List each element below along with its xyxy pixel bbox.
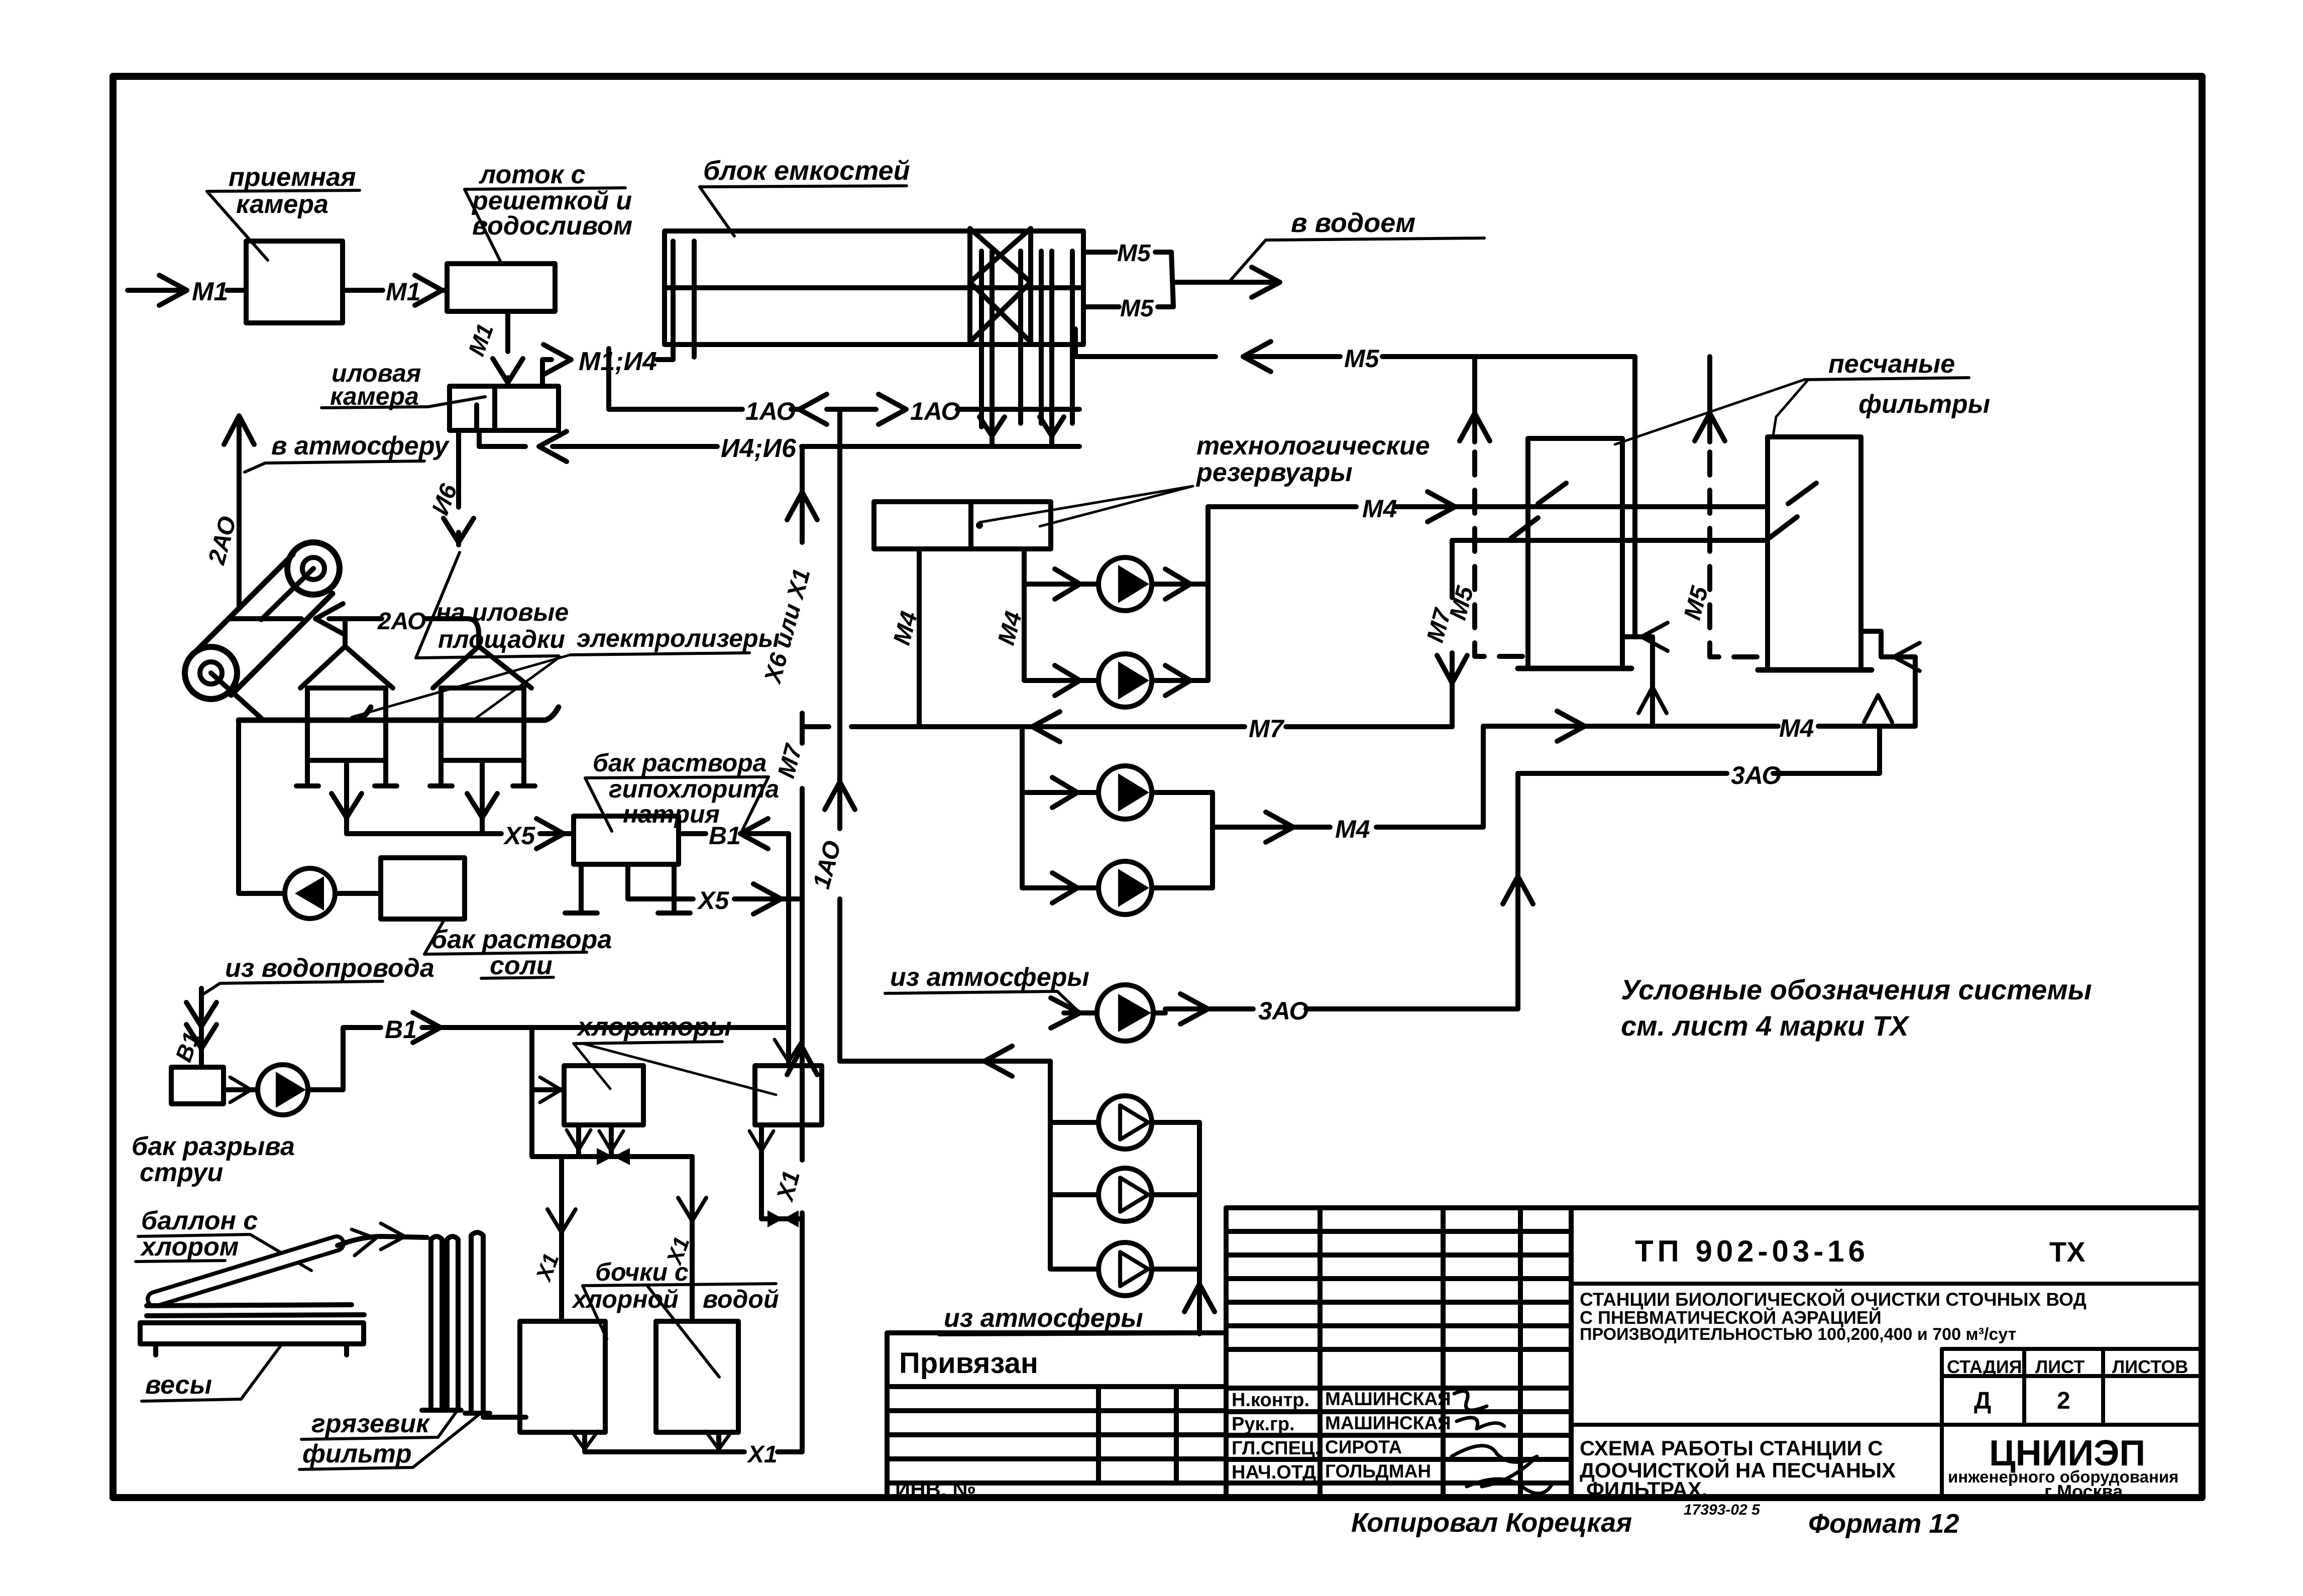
pump salt solution: [285, 868, 335, 919]
callout trapezoid: [585, 777, 769, 831]
label В1 rotated: [170, 1029, 204, 1065]
arrow inlet M1: [159, 275, 187, 305]
riser 1AO (x1672): [837, 409, 842, 1061]
svg-text:на иловые: на иловые: [436, 598, 569, 626]
underline бак раствора соли: [424, 952, 587, 978]
arrow into iz-atm pump: [1051, 998, 1080, 1028]
svg-text:2АО: 2АО: [377, 608, 426, 635]
wire: 2AO line: [229, 616, 467, 621]
arrows B1 down double: [186, 1002, 216, 1049]
arrow to atmosphere: [224, 416, 254, 444]
label M1 rotated on down pipe: [463, 320, 499, 360]
svg-text:приемная: приемная: [229, 163, 356, 192]
underline баллон: [136, 1234, 250, 1262]
mid pump group inlet manifold: [1022, 727, 1098, 888]
station description: [1580, 1289, 2087, 1344]
right section dividers: [1571, 1284, 2202, 1425]
chlorator feed branches: [532, 1028, 789, 1157]
arrow X5 into riser: [753, 884, 781, 914]
filter A base: [1518, 666, 1631, 671]
arrow down barrel1 feed: [547, 1209, 576, 1232]
signatures squiggles: [1452, 1391, 1552, 1494]
blower spiral 2 tail: [261, 568, 313, 620]
label М5 return: [1344, 345, 1380, 373]
underline песчаные: [1804, 378, 1969, 380]
arrows into chlorator2 top: [775, 1040, 803, 1062]
title block: pривязан table: [887, 1333, 1226, 1499]
label: технологические резервуары: [1195, 431, 1430, 487]
svg-text:М4: М4: [1335, 815, 1370, 843]
reservoir divider: [968, 502, 973, 549]
svg-text:ТХ: ТХ: [2049, 1236, 2086, 1268]
arrow 1AO left: [799, 394, 827, 424]
arrow into chlorator1: [540, 1077, 561, 1102]
label 1АО rotated: [808, 838, 846, 892]
wire: M1 into box: [227, 288, 246, 293]
label Х5: [503, 822, 535, 850]
label: грязевик: [311, 1409, 430, 1438]
leader from I6 arrow: [416, 552, 460, 658]
label М5 rotated branch1: [1445, 583, 1479, 623]
arrows mid pumps in: [1052, 777, 1077, 903]
label: весы: [145, 1371, 212, 1400]
hypochlorite tank box: [574, 816, 679, 864]
arrow into filter A connection: [1641, 623, 1668, 651]
wire: X1 header: [532, 1154, 692, 1159]
label: бак раствора соли: [431, 925, 612, 980]
svg-text:бочки с: бочки с: [595, 1258, 689, 1286]
central rows upper: [1226, 1231, 1571, 1349]
wire: M4 top line: [1208, 504, 1356, 509]
wire: M7 long line: [802, 724, 1245, 729]
filter B connection square: [1861, 631, 1915, 726]
arrow M7 down: [1437, 655, 1467, 683]
svg-text:М5: М5: [1344, 345, 1380, 373]
scheme title: [1580, 1436, 1896, 1501]
arrow riser up 2: [787, 1047, 817, 1075]
blower spiral 1 tail: [211, 673, 261, 718]
column bases: [422, 1410, 490, 1413]
label: Условные обозначения: [1621, 974, 2092, 1042]
chlorine cylinder: [155, 1243, 337, 1299]
wire B1 stub into chlorator1 left: [532, 1087, 564, 1092]
svg-text:М5: М5: [1120, 295, 1154, 322]
label 3АО: [1258, 997, 1308, 1025]
arrow B1 left: [740, 819, 768, 849]
arrow into lotok: [415, 275, 447, 305]
riser X6/X1 (x1597): [800, 446, 805, 1452]
salt solution tank box: [381, 858, 465, 919]
svg-text:баллон с: баллон с: [141, 1206, 258, 1235]
svg-text:фильтры: фильтры: [1858, 390, 1990, 419]
mid discharge manifold: [1210, 792, 1215, 888]
label: в атмосферу: [271, 431, 450, 461]
svg-text:СТАДИЯ: СТАДИЯ: [1947, 1356, 2022, 1377]
underline из водопровода: [220, 981, 383, 983]
leaders to chlorators: [574, 1044, 776, 1095]
svg-text:из атмосферы: из атмосферы: [890, 963, 1089, 992]
wire M5 main down to filter A connection: [1632, 357, 1637, 637]
arrow outfall: [1252, 267, 1280, 297]
svg-text:ГЛ.СПЕЦ.: ГЛ.СПЕЦ.: [1232, 1438, 1320, 1459]
label: блок емкостей: [703, 156, 910, 186]
arrow 1AO elbow left: [984, 1046, 1012, 1076]
wire: X5 header: [347, 831, 501, 836]
arrow 3AO riser up: [1503, 876, 1533, 904]
wire: reservoir left drain M4: [917, 549, 922, 727]
leader to ilovaya box: [428, 397, 485, 407]
label: из атмосферы (upper): [890, 963, 1089, 992]
chlorator1 drains: [579, 1125, 611, 1154]
arrow M5 branch2 up: [1695, 413, 1725, 441]
svg-text:г Москва: г Москва: [2044, 1481, 2123, 1502]
label М1;И4: [579, 347, 657, 376]
barrel 2: [656, 1321, 738, 1432]
underline лоток с: [465, 188, 625, 189]
svg-text:в атмосферу: в атмосферу: [271, 431, 450, 461]
blower spiral 1: [185, 647, 237, 699]
underline весы: [142, 1399, 241, 1401]
label Х5 out: [697, 886, 729, 915]
pump iz atmosfery: [1097, 985, 1153, 1041]
valve on chlorator2 drain: [767, 1210, 799, 1227]
label М5 rotated branch2: [1679, 583, 1714, 623]
svg-text:СТАНЦИИ БИОЛОГИЧЕСКОЙ ОЧИСТКИ: СТАНЦИИ БИОЛОГИЧЕСКОЙ ОЧИСТКИ СТОЧНЫХ ВО…: [1580, 1289, 2087, 1310]
wire: M5 return line: [1075, 354, 1635, 359]
label ИНВ №: [895, 1477, 976, 1501]
bottom pump suction manifold: [1050, 1061, 1099, 1269]
arrow M4 right line: [1557, 711, 1585, 741]
wire: cylinder to filters: [338, 1236, 427, 1245]
label: бак разрыва струи: [132, 1132, 295, 1187]
arrow M4 lower: [1266, 812, 1293, 842]
central rows named: [1226, 1388, 1571, 1483]
svg-text:водой: водой: [703, 1285, 779, 1313]
hypochlorite feet: [565, 864, 690, 913]
svg-text:Д: Д: [1974, 1388, 1991, 1414]
arrow X5 right: [536, 819, 564, 849]
svg-text:ФИЛЬТРАХ.: ФИЛЬТРАХ.: [1586, 1477, 1707, 1501]
electrolyzer 1: [300, 646, 393, 688]
arrow M5 left: [1243, 341, 1271, 372]
label Х1 rotated on riser: [772, 1168, 805, 1205]
arrow B1 right: [413, 1012, 441, 1043]
underline электролизеры: [570, 653, 749, 655]
arrow I4;I6 left: [539, 431, 567, 462]
wire pump3 inlet: [1022, 790, 1098, 795]
pump M4-2: [1099, 654, 1152, 707]
svg-text:2: 2: [2057, 1388, 2070, 1414]
wire: M5 stub top: [1083, 250, 1116, 255]
wire: box to lotok: [343, 288, 383, 293]
3AO riser: [1515, 773, 1520, 1009]
wire: header corner down to barrel2: [690, 1157, 695, 1321]
привязан rows: [887, 1387, 1226, 1483]
wire: M4+M7 to filter B connection: [1483, 724, 1915, 729]
svg-text:водосливом: водосливом: [472, 211, 632, 241]
svg-text:фильтр: фильтр: [302, 1439, 412, 1468]
label 2АО: [377, 608, 426, 635]
label М4 rotated right drain: [993, 609, 1027, 648]
leader весы: [241, 1345, 281, 1399]
wire 1AO line right part: [957, 407, 1079, 412]
central columns: [1320, 1208, 1520, 1499]
label: хлораторы: [576, 1012, 732, 1042]
svg-text:М1: М1: [463, 320, 499, 360]
underline в атмосферу: [265, 461, 424, 463]
svg-text:площадки: площадки: [438, 625, 565, 653]
arrow M1;I4 right: [543, 345, 571, 375]
slash marks M4 entry: [1538, 483, 1816, 504]
wire: B1 stub to hypochlorite: [679, 831, 706, 836]
lotok box: [447, 264, 555, 311]
chlorator2 drain arrows: [749, 1131, 774, 1151]
underline приемная: [207, 190, 360, 191]
blok emkostey box: [665, 231, 1083, 345]
svg-text:блок емкостей: блок емкостей: [703, 156, 910, 186]
filter A connection square: [1622, 637, 1653, 726]
label М4 top: [1362, 495, 1397, 523]
label: приемная камера: [229, 163, 356, 219]
label: электролизеры: [577, 624, 780, 652]
M5 branch 1 dashed: [1475, 452, 1528, 656]
wire M1;I4 to blok pipes: [657, 357, 673, 362]
svg-text:НАЧ.ОТД: НАЧ.ОТД: [1232, 1462, 1316, 1483]
arrow into pump: [230, 1077, 251, 1102]
dirt trap columns: [431, 1236, 442, 1409]
svg-text:хлораторы: хлораторы: [576, 1012, 732, 1042]
arrow 1AO riser up: [825, 782, 855, 810]
M5 branch 2 solid stub: [1707, 357, 1712, 442]
leader to house2: [471, 657, 560, 722]
underline в водоем: [1266, 238, 1484, 240]
svg-text:М7: М7: [1249, 715, 1285, 743]
leader to B1 arrow: [203, 983, 220, 994]
svg-text:электролизеры: электролизеры: [577, 624, 780, 652]
blok left pipes: [673, 241, 694, 360]
underline блок емкостей: [700, 186, 907, 187]
pump bottom 2: [1099, 1168, 1152, 1221]
label Х1 rotated barrel1 feed: [531, 1250, 564, 1285]
label Х6 или Х1 rotated: [759, 566, 816, 687]
chlorator 2 box: [755, 1066, 822, 1125]
label 1АО (left): [745, 397, 796, 425]
svg-text:см. лист 4 марки ТХ: см. лист 4 марки ТХ: [1621, 1010, 1910, 1042]
svg-text:Х1: Х1: [772, 1168, 805, 1205]
arrow down barrel2 feed: [678, 1198, 706, 1221]
svg-text:М5: М5: [1117, 240, 1151, 267]
svg-text:камера: камера: [236, 190, 328, 219]
label: лоток с решеткой и водосливом: [471, 160, 632, 241]
svg-text:Привязан: Привязан: [899, 1347, 1038, 1380]
wire: 3AO from pump: [1153, 1009, 1253, 1013]
svg-text:М4: М4: [1362, 495, 1397, 523]
svg-text:3АО: 3АО: [1731, 761, 1781, 789]
wire 1AO line mid: [791, 407, 876, 412]
label 3АО right: [1731, 761, 1781, 789]
wire inlet stub: [1064, 1010, 1097, 1015]
wire: M5 stub bottom: [1083, 304, 1119, 309]
svg-text:резервуары: резервуары: [1195, 458, 1353, 487]
underline иловая камера: [321, 407, 428, 408]
electrolyzer 1 drain: [344, 760, 349, 834]
bottom pump outlets: [1152, 1122, 1199, 1269]
ilovaya kamera box: [450, 386, 559, 430]
label M1 mid: [386, 278, 420, 306]
label М4 lower: [1335, 815, 1370, 843]
wire: vertical 1212: [606, 349, 611, 409]
2AO corner into house2 stem: [467, 619, 479, 646]
wire: outfall line: [1180, 280, 1278, 285]
svg-text:М4: М4: [1779, 714, 1814, 742]
leader atmosphere: [245, 463, 265, 472]
label В1 line: [385, 1015, 417, 1044]
label М4 right: [1779, 714, 1814, 742]
svg-text:М1;И4: М1;И4: [579, 347, 657, 376]
wire B1 stub from riser1570: [740, 834, 789, 1028]
callout бочки: [583, 1284, 776, 1377]
wire X5 to hypochlorite tank: [540, 831, 574, 836]
wire: lotok down pipe: [505, 311, 510, 386]
svg-text:Формат 12: Формат 12: [1808, 1509, 1959, 1539]
привязан columns: [1099, 1387, 1176, 1483]
wire tank to pump: [224, 1087, 258, 1092]
label: бочки с хлорной водой: [571, 1258, 779, 1313]
M5 branch 1 solid stub: [1472, 357, 1477, 442]
ilovaya inner pipe: [474, 405, 479, 430]
arrows pump outlets: [1165, 569, 1190, 696]
title block: central table: [1226, 1208, 1571, 1499]
arrows into upper pumps: [1055, 569, 1080, 696]
reservoir box: [874, 502, 1051, 549]
label М7 rotated riser: [1422, 605, 1457, 645]
scales base: [140, 1323, 364, 1344]
wire: M5 return elbow into blok: [1073, 329, 1078, 357]
arrow M5 branch1 up: [1460, 413, 1490, 441]
electrolyzer 2 drain: [480, 760, 485, 834]
leader to outfall arrow: [1230, 240, 1266, 281]
blok mid line: [665, 285, 1083, 290]
svg-text:Х1: Х1: [531, 1250, 564, 1285]
wire: columns out: [483, 1415, 526, 1420]
wire: second feed line y1076: [1452, 538, 1768, 543]
arrow down into ilovaya: [493, 359, 523, 383]
svg-text:В1: В1: [385, 1015, 417, 1044]
label М5 stub bottom: [1120, 295, 1154, 322]
svg-text:Копировал Корецкая: Копировал Корецкая: [1351, 1508, 1632, 1538]
wire pump2 inlet: [1024, 584, 1098, 680]
label: песчаные фильтры: [1828, 350, 1990, 419]
wire: X5 out of hypochlorite: [628, 864, 693, 899]
label: фильтр: [302, 1439, 412, 1468]
doc number: [1635, 1234, 2086, 1268]
wire: 1AO elbow bottom: [840, 1059, 1050, 1064]
label 2АО rotated: [203, 514, 242, 568]
arrow 3AO: [1180, 994, 1208, 1024]
wire M7 line right part: [1286, 724, 1452, 729]
chlorator 1 box: [564, 1066, 643, 1125]
arrow up in filter A connection: [1638, 687, 1667, 713]
blower spiral 2: [287, 542, 340, 595]
wire: inlet M1: [128, 288, 187, 293]
arrow 2AO left: [315, 604, 343, 634]
arrow M4 top: [1428, 492, 1455, 522]
blok right pipe cluster: [981, 251, 1072, 446]
svg-text:МАШИНСКАЯ: МАШИНСКАЯ: [1325, 1389, 1451, 1409]
M7 riser: [1450, 540, 1455, 727]
jet-break tank box: [171, 1067, 224, 1104]
receiving chamber box: [246, 241, 343, 323]
svg-text:Н.контр.: Н.контр.: [1232, 1390, 1309, 1411]
wire: I4;I6 line: [479, 444, 1079, 449]
label: из водопровода: [225, 954, 434, 983]
M5 branch 2 dashed: [1710, 452, 1768, 657]
ilovaya divider: [492, 386, 497, 430]
wire: reservoir right drain: [1024, 549, 1098, 584]
names column texts: [1232, 1389, 1451, 1483]
label М5 stub top: [1117, 240, 1151, 267]
svg-text:в водоем: в водоем: [1291, 208, 1415, 238]
wire: I6 drop from ilovaya: [456, 430, 461, 545]
leader to receiving chamber box: [207, 191, 268, 260]
arrow into filter B connection: [1894, 643, 1920, 671]
arrow M7 left: [1032, 712, 1060, 742]
svg-text:весы: весы: [145, 1371, 212, 1400]
title block: right section: [1571, 1208, 2202, 1499]
svg-text:М1: М1: [386, 278, 420, 306]
wire: 1AO line y815 left part: [609, 407, 742, 412]
electrolyzer 2: [433, 646, 531, 688]
label Х1 rotated barrel2 feed: [662, 1233, 694, 1269]
svg-text:из атмосферы: из атмосферы: [944, 1304, 1143, 1333]
label: из атмосферы (lower): [944, 1304, 1143, 1333]
arrow up filter B connection: [1864, 695, 1892, 722]
stadia cells: [1942, 1349, 2202, 1425]
leader to blok: [700, 187, 734, 236]
wire: to atmosphere vertical: [237, 417, 242, 609]
label В1 stub: [709, 822, 741, 850]
barrel drains: [585, 1432, 719, 1452]
leader to house1: [352, 655, 570, 717]
svg-text:И4;И6: И4;И6: [721, 434, 797, 463]
chlorator2 drain: [761, 1125, 802, 1219]
wire: M4 lower line: [1213, 825, 1330, 830]
leader to cylinder: [250, 1234, 311, 1271]
wire B1 line to chlorators: [422, 1025, 789, 1030]
arrow 1AO right: [879, 394, 906, 424]
svg-text:грязевик: грязевик: [311, 1409, 430, 1438]
svg-text:1АО: 1АО: [910, 397, 960, 425]
valve on X1 header: [597, 1148, 630, 1165]
pump M4-3: [1099, 766, 1152, 819]
svg-text:песчаные: песчаные: [1828, 350, 1955, 379]
elbow into ilovaya bottom: [477, 430, 482, 446]
svg-text:Х5: Х5: [503, 822, 535, 850]
label М7 line: [1249, 715, 1285, 743]
svg-text:ПРОИЗВОДИТЕЛЬНОСТЬЮ 100,200,40: ПРОИЗВОДИТЕЛЬНОСТЬЮ 100,200,400 и 700 м³…: [1580, 1325, 2016, 1344]
X section verticals: [970, 229, 1031, 345]
wire: pump discharge up: [308, 1028, 381, 1090]
svg-text:ЛИСТ: ЛИСТ: [2035, 1356, 2085, 1377]
wire 3AO to riser: [1306, 1006, 1518, 1011]
chlorator1 drain arrows: [567, 1130, 623, 1151]
svg-text:3АО: 3АО: [1258, 997, 1308, 1025]
mid pump outlets: [1152, 792, 1213, 888]
pump bottom 3: [1099, 1242, 1152, 1296]
label Привязан: [899, 1347, 1038, 1380]
svg-text:1АО: 1АО: [808, 838, 846, 892]
label 1АО (right): [910, 397, 960, 425]
